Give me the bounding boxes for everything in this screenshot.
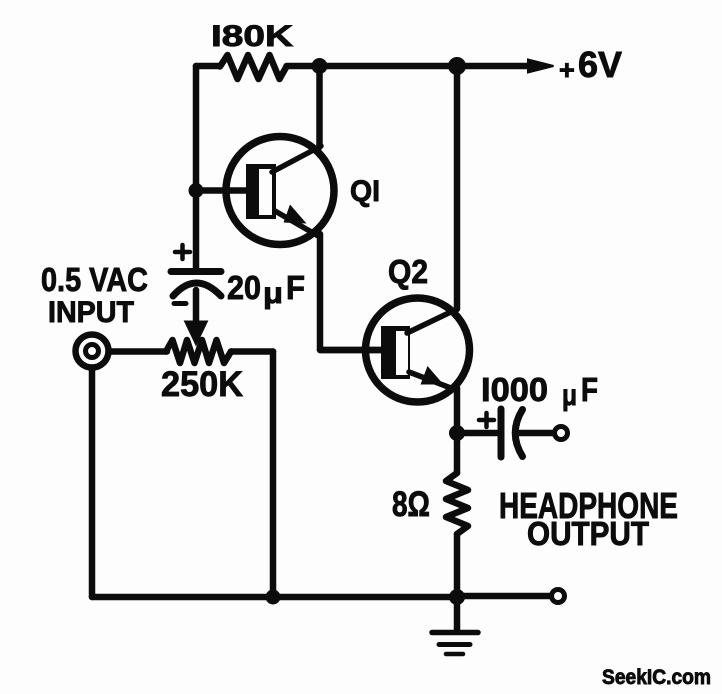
resistor R3 8ohm zigzag (446, 473, 468, 534)
svg-text:20: 20 (227, 269, 261, 306)
wire input terminal to pot left (112, 348, 167, 355)
input terminal (76, 335, 109, 368)
svg-text:QI: QI (350, 175, 380, 208)
junction dot Q1 base node (196,190.5) (189, 183, 204, 198)
wire top rail right segment (287, 63, 458, 70)
output terminal upper (555, 427, 568, 440)
potentiometer R2 250K zigzag (166, 340, 231, 363)
wire node to capacitor C2 (457, 430, 497, 437)
svg-text:μ: μ (562, 379, 577, 412)
svg-text:Q2: Q2 (388, 253, 428, 290)
wire Q1 base lead (196, 187, 246, 194)
potentiometer wiper arrow (186, 322, 206, 343)
wire pot right lead (231, 348, 273, 355)
svg-text:SeekIC.com: SeekIC.com (602, 666, 711, 689)
wire Q1 collector vertical (316, 66, 323, 147)
svg-text:8Ω: 8Ω (392, 485, 430, 524)
svg-text:+: + (559, 55, 575, 85)
svg-text:INPUT: INPUT (48, 296, 134, 329)
wire capacitor C1 to wiper (193, 290, 200, 324)
wire input terminal down left vertical (89, 370, 96, 597)
junction dot node top-right (457,66) (448, 57, 466, 75)
svg-text:F: F (286, 269, 305, 306)
capacitor C1 20uF (171, 245, 221, 304)
transistor Q1 (226, 137, 334, 245)
arrowhead +6V (528, 60, 554, 73)
junction dot node top-left (319,66) (312, 58, 328, 74)
junction dot bottom rail ground (457,597) (449, 589, 465, 605)
wire bottom rail to output terminal (457, 593, 549, 600)
wire +6V arrow shaft (457, 63, 535, 70)
svg-text:F: F (581, 371, 598, 408)
wire capacitor C2 to output terminal (520, 430, 552, 437)
junction dot bottom rail pot (273,597) (266, 590, 281, 605)
wire pot right vertical to bottom rail (270, 352, 277, 598)
transistor Q2 (366, 298, 470, 402)
svg-text:0.5 VAC: 0.5 VAC (41, 261, 148, 298)
wire Q2 collector vertical (454, 66, 461, 309)
wire resistor to bottom rail (454, 534, 461, 597)
wire ground stub (454, 597, 461, 631)
svg-text:6V: 6V (578, 44, 622, 85)
capacitor C2 1000uF (479, 409, 523, 457)
svg-text:I80K: I80K (211, 20, 293, 53)
output terminal lower (552, 590, 565, 603)
resistor R1 180K zigzag (220, 55, 287, 79)
svg-text:μ: μ (263, 277, 283, 310)
svg-text:OUTPUT: OUTPUT (527, 515, 649, 552)
ground (432, 633, 478, 655)
wire Q1 emitter vertical down to elbow (320, 234, 383, 350)
wire bottom rail (92, 594, 457, 601)
svg-text:I000: I000 (481, 371, 548, 408)
wire Q2 emitter down to node (454, 388, 461, 473)
junction dot output node (457,433) (449, 425, 465, 441)
wire top rail left segment (196, 63, 220, 70)
wire left vertical from top rail to capacitor (193, 66, 200, 268)
svg-text:250K: 250K (161, 365, 243, 404)
wire Q2 base lead (320, 347, 381, 354)
